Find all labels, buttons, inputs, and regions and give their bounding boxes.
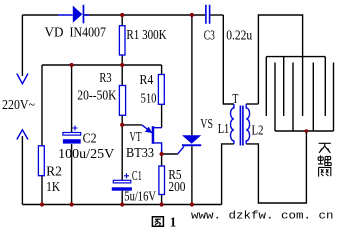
svg-text:L1: L1 xyxy=(218,121,230,136)
wire C2 top xyxy=(71,65,73,133)
resistor R2 xyxy=(38,146,44,176)
svg-text:220V~: 220V~ xyxy=(2,97,35,112)
label fly net char 蝇 xyxy=(318,155,331,165)
wire top rail left segment xyxy=(22,14,58,16)
resistor R1 xyxy=(119,26,125,55)
AC source arrow down xyxy=(17,74,28,84)
wire L1 bottom lead xyxy=(222,144,234,205)
svg-text:BT33: BT33 xyxy=(126,145,154,160)
capacitor C2 bottom plate xyxy=(63,139,81,143)
svg-text:20--50K: 20--50K xyxy=(77,88,116,103)
wire R1 bottom xyxy=(121,55,123,65)
wire R3 top xyxy=(121,65,123,86)
svg-text:VS: VS xyxy=(200,116,213,131)
net bottom comb tooth 4 xyxy=(333,63,335,132)
svg-text:C2: C2 xyxy=(83,131,97,146)
svg-text:1: 1 xyxy=(170,214,177,228)
node bottom rail C2 xyxy=(70,202,74,206)
svg-text:1K: 1K xyxy=(46,179,60,194)
node bottom rail C1 xyxy=(120,202,124,206)
net top comb tooth 3 xyxy=(302,57,304,116)
transformer T core xyxy=(240,106,243,146)
node top rail VS xyxy=(190,13,194,17)
wire top bracket to net xyxy=(258,15,302,104)
diode VD blue leads xyxy=(58,14,89,16)
svg-text:T: T xyxy=(232,91,239,106)
wire R1 top xyxy=(121,15,123,26)
svg-text:C1: C1 xyxy=(132,168,142,183)
wire C1 bottom xyxy=(121,191,123,205)
wire C2 bottom xyxy=(71,144,73,205)
svg-text:R1 300K: R1 300K xyxy=(126,27,166,42)
wire VS anode xyxy=(191,15,193,135)
node top rail R1 xyxy=(120,13,124,17)
wire R4 top xyxy=(161,65,163,75)
capacitor C1 bottom plate xyxy=(112,187,132,190)
label fly net char 灭 xyxy=(319,143,331,153)
wire L2 bottom to net xyxy=(246,131,306,203)
wire R3 bottom to node xyxy=(121,115,123,125)
diode VD xyxy=(73,5,84,24)
wire top rail right segment xyxy=(210,14,223,16)
svg-text:L2: L2 xyxy=(252,123,264,138)
wire R2 branch xyxy=(41,65,43,146)
label fly net char 网 xyxy=(319,167,331,176)
wire base1 node to R5 xyxy=(161,150,163,166)
capacitor C2 plus xyxy=(73,126,78,131)
label figure 图 xyxy=(152,217,163,226)
net bottom comb tooth 2 xyxy=(292,63,294,132)
node R3 bottom xyxy=(120,123,124,127)
node base1 xyxy=(160,152,164,156)
capacitor C1 top plate xyxy=(113,180,131,183)
svg-text:VD: VD xyxy=(45,25,64,40)
wire top rail mid segment xyxy=(84,14,205,16)
svg-text:IN4007: IN4007 xyxy=(70,25,107,40)
svg-text:510: 510 xyxy=(141,90,157,105)
wire gate horizontal xyxy=(162,153,178,155)
resistor R5 xyxy=(159,166,165,195)
svg-text:www. dzkfw. com. cn: www. dzkfw. com. cn xyxy=(191,210,334,222)
node bottom rail R2 xyxy=(40,202,44,206)
resistor R3 xyxy=(119,86,125,116)
thyristor VS xyxy=(182,135,201,146)
wire inner rail xyxy=(42,64,162,66)
transformer T secondary L2 xyxy=(246,104,249,144)
svg-text:C3: C3 xyxy=(204,28,215,43)
net top comb tooth 1 xyxy=(265,57,267,116)
AC source arrow up xyxy=(17,130,28,140)
wire L2 top lead xyxy=(246,103,258,105)
wire bottom rail xyxy=(22,204,221,206)
net top comb tooth 2 xyxy=(283,57,285,116)
node inner rail C2 xyxy=(70,63,74,67)
node bottom rail VS xyxy=(190,202,194,206)
net bottom comb rail xyxy=(275,130,334,132)
net bottom comb tooth 1 xyxy=(274,63,276,132)
capacitor C2 top plate xyxy=(63,133,81,136)
svg-text:R4: R4 xyxy=(140,72,154,87)
wire C1 top xyxy=(121,125,123,180)
wire emitter horizontal xyxy=(122,124,142,126)
capacitor C1 plus xyxy=(124,173,129,178)
svg-text:R3: R3 xyxy=(99,70,111,85)
wire C3 drop to L1 xyxy=(223,15,234,104)
node bottom rail R5 xyxy=(160,202,164,206)
svg-text:200: 200 xyxy=(168,179,185,194)
svg-text:5u/16V: 5u/16V xyxy=(124,189,156,204)
transistor VT (UJT) xyxy=(142,125,162,153)
wire VS cathode xyxy=(191,146,193,204)
resistor R4 xyxy=(158,75,164,105)
wire R2 bottom xyxy=(41,176,43,205)
capacitor C3 plates xyxy=(206,5,210,24)
node net bottom xyxy=(305,129,309,133)
wire left AC branch lower xyxy=(21,136,23,205)
wire R5 bottom xyxy=(161,195,163,205)
net top comb rail xyxy=(266,56,325,58)
thyristor VS gate lead xyxy=(178,146,184,153)
svg-text:100u/25V: 100u/25V xyxy=(58,146,114,161)
wire R4 bottom to base2 xyxy=(161,104,163,127)
node inner rail R3 xyxy=(120,63,124,67)
net top comb tooth 4 xyxy=(324,57,326,116)
wire left AC branch upper xyxy=(21,15,23,76)
transformer T primary L1 xyxy=(230,104,233,144)
net bottom comb tooth 3 xyxy=(312,63,314,132)
svg-text:0.22u: 0.22u xyxy=(226,28,252,43)
svg-text:R2: R2 xyxy=(46,164,62,179)
svg-text:VT: VT xyxy=(130,129,142,144)
